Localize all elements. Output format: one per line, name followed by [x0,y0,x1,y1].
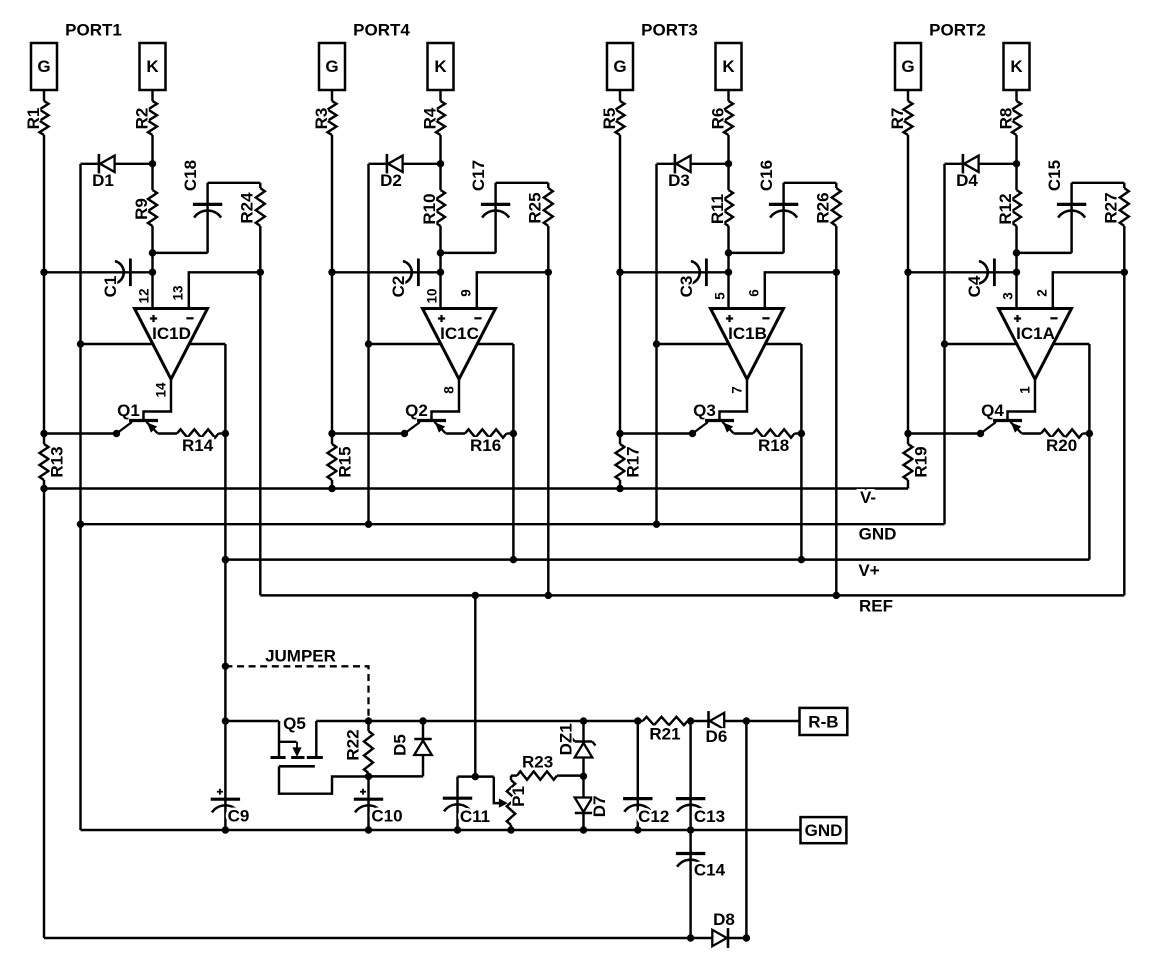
op-amp IC1A [999,309,1072,380]
resistor R13 [40,444,49,480]
resistor R3 [328,101,337,135]
wire op-amp output [144,379,172,419]
capacitor C9 [211,798,240,801]
wire feedback vertical [800,344,802,560]
resistor R26 [835,183,837,188]
wire [439,226,441,309]
terminal G (PORT4) [319,43,345,90]
wire [79,164,81,524]
svg-text:K: K [146,57,159,76]
wire left V- rail to bottom [43,489,45,939]
capacitor C13 [689,721,691,830]
svg-text:DZ1: DZ1 [557,723,576,755]
diode D1 [100,156,115,172]
wire [81,163,153,165]
svg-text:C3: C3 [677,276,696,298]
svg-text:G: G [37,57,50,76]
svg-text:R2: R2 [133,108,152,130]
terminal G (PORT2) [895,43,921,90]
svg-text:3: 3 [1001,292,1016,300]
wire inverting input [765,272,837,308]
svg-text:5: 5 [713,292,728,300]
wire [727,135,729,190]
wire feedback wrap [369,343,514,345]
wire [727,226,729,309]
svg-text:C17: C17 [469,160,488,191]
wire inverting input [189,272,260,308]
svg-text:10: 10 [425,288,440,303]
wire [1015,135,1017,190]
resistor R11 [724,190,733,226]
capacitor C14 [689,830,691,938]
svg-text:13: 13 [171,285,186,301]
wire [439,90,441,101]
wire [441,252,496,254]
wire [688,720,709,722]
svg-text:G: G [613,57,626,76]
jumper dashed link [225,666,368,719]
svg-text:2: 2 [1035,289,1050,297]
diode D8 [712,930,727,946]
terminal K (PORT4) [428,43,454,90]
wire collector [908,432,981,434]
resistor R1 [40,101,49,135]
wire [151,135,153,190]
terminal K (PORT1) [140,43,166,90]
bus V+ [225,558,1089,560]
resistor R24 [259,183,261,188]
wire [331,90,333,101]
svg-text:R1: R1 [24,108,43,130]
wire collector [44,432,117,434]
svg-text:PORT1: PORT1 [65,21,122,40]
svg-text:Q4: Q4 [981,401,1004,420]
resistor R15 [328,444,337,480]
svg-text:D1: D1 [92,171,114,190]
svg-text:R20: R20 [1046,436,1077,455]
wire [151,226,153,309]
svg-text:R14: R14 [182,436,214,455]
wire op-amp output [720,379,748,419]
svg-text:R19: R19 [912,446,931,477]
svg-text:G: G [901,57,914,76]
diode D2 [388,156,403,172]
svg-text:C9: C9 [228,807,250,826]
svg-text:P1: P1 [509,786,528,807]
svg-text:G: G [325,57,338,76]
svg-text:V+: V+ [858,561,879,580]
svg-text:R-B: R-B [808,712,838,731]
wire feedback wrap [657,343,802,345]
diode D7 [582,776,584,830]
svg-text:PORT4: PORT4 [353,21,410,40]
zener diode DZ1 [582,721,584,776]
wire [619,480,621,489]
svg-text:R7: R7 [888,108,907,130]
svg-text:Q3: Q3 [693,401,716,420]
resistor R27 [1123,183,1125,188]
capacitor C4 [908,271,1017,273]
potentiometer P1 [500,799,507,806]
wire [367,164,369,524]
svg-text:8: 8 [442,386,457,394]
wire inverting input [1053,272,1125,308]
capacitor C16 [782,183,784,253]
wire main positive rail [316,720,643,722]
resistor R6 [724,101,733,135]
svg-text:D2: D2 [380,171,402,190]
capacitor C11 [456,777,458,830]
wire feedback vertical [224,344,226,830]
resistor R18 [753,429,795,437]
terminal G (PORT3) [607,43,633,90]
resistor R10 [436,190,445,226]
wire [331,135,333,444]
wire [1015,90,1017,101]
resistor R9 [148,190,157,226]
svg-text:D7: D7 [590,796,609,818]
svg-text:C4: C4 [965,275,984,297]
svg-text:D8: D8 [713,910,735,929]
svg-text:K: K [1010,57,1023,76]
wire [619,135,621,444]
capacitor C1 [44,271,153,273]
diode D6 [710,713,725,729]
svg-text:C16: C16 [757,160,776,191]
wire [439,135,441,190]
bus REF [260,594,1124,596]
svg-text:R3: R3 [312,108,331,130]
wire [1017,252,1072,254]
svg-text:R11: R11 [708,194,727,224]
svg-text:R22: R22 [344,729,363,760]
svg-text:R10: R10 [420,193,439,224]
svg-text:R26: R26 [813,192,832,223]
node dots bottom [222,556,229,563]
resistor R25 [547,183,549,188]
svg-text:REF: REF [859,597,893,616]
wire [907,480,909,489]
wire collector [332,432,405,434]
svg-text:C15: C15 [1045,160,1064,191]
svg-text:D6: D6 [706,727,728,746]
op-amp IC1B [711,309,784,380]
resistor R23 [511,774,517,776]
wire wiper link [458,775,494,777]
svg-text:R5: R5 [600,108,619,130]
wire [1123,226,1125,595]
op-amp IC1C [423,309,496,380]
svg-text:IC1A: IC1A [1016,324,1055,343]
node dots [328,269,335,276]
svg-text:R12: R12 [996,193,1015,224]
diode D3 [676,156,691,172]
wire [331,480,333,489]
wire [1072,182,1125,184]
capacitor C18 [206,183,208,253]
node dots [904,269,911,276]
svg-text:Q2: Q2 [405,401,428,420]
bus V- [44,487,908,489]
wire ground rail bottom [81,829,801,831]
wire bottom rail [44,937,713,939]
wire [907,90,909,101]
capacitor C17 [494,183,496,253]
wire emitter [734,432,754,434]
svg-text:C13: C13 [694,807,725,826]
svg-text:PORT2: PORT2 [929,21,986,40]
svg-text:JUMPER: JUMPER [265,647,336,666]
svg-text:K: K [434,57,447,76]
capacitor C15 [1070,183,1072,253]
resistor R7 [904,101,913,135]
resistor R19 [904,444,913,480]
svg-text:V-: V- [860,488,876,507]
terminal K (PORT2) [1004,43,1030,90]
wire [727,90,729,101]
svg-text:R4: R4 [421,107,440,129]
resistor R20 [1041,429,1083,437]
svg-text:GND: GND [859,525,897,544]
svg-text:C14: C14 [694,861,726,880]
wire feedback wrap [81,343,226,345]
terminal G (PORT1) [31,43,57,90]
wire [43,480,45,489]
capacitor C12 [637,721,639,830]
bus GND [81,523,945,525]
op-amp IC1D [135,309,208,380]
svg-text:IC1C: IC1C [440,324,479,343]
wire [943,164,945,524]
wire [496,182,549,184]
svg-text:9: 9 [459,289,474,297]
wire [547,226,549,595]
svg-text:12: 12 [137,288,152,303]
wire feedback wrap [945,343,1090,345]
wire [43,90,45,101]
terminal R-B [800,708,848,735]
wire op-amp output [1008,379,1036,419]
wire [945,163,1017,165]
wire [369,163,441,165]
wire emitter [446,432,466,434]
wire emitter [1022,432,1042,434]
node dots [40,269,47,276]
resistor R14 [177,429,219,437]
svg-text:14: 14 [154,382,169,398]
wire emitter [158,432,178,434]
svg-text:C1: C1 [101,276,120,298]
wire op-amp output [432,379,460,419]
svg-text:7: 7 [730,386,745,394]
wire left ground rail [79,524,81,830]
wire R-B drop [745,721,747,938]
wire [151,90,153,101]
svg-text:R15: R15 [336,446,355,477]
svg-text:PORT3: PORT3 [641,21,698,40]
svg-text:IC1B: IC1B [728,324,767,343]
wire [1015,226,1017,309]
svg-text:C11: C11 [460,807,490,826]
wire [835,226,837,595]
svg-text:C2: C2 [389,276,408,298]
wire ref drop to C11 [474,595,476,776]
wire [724,720,799,722]
wire feedback vertical [1088,344,1090,560]
svg-text:Q1: Q1 [117,401,140,420]
svg-text:R27: R27 [1101,192,1120,223]
svg-text:R13: R13 [48,446,67,477]
terminal GND [801,817,847,843]
wire [153,252,208,254]
wire [259,226,261,595]
wire collector [620,432,693,434]
diode D4 [964,156,979,172]
wire [619,90,621,101]
resistor R4 [436,101,445,135]
node dots [616,269,623,276]
wire [907,135,909,444]
svg-text:D4: D4 [956,171,978,190]
svg-text:D5: D5 [391,734,410,756]
svg-text:R18: R18 [758,436,789,455]
svg-text:R25: R25 [525,192,544,223]
wire [728,937,746,939]
svg-text:R23: R23 [522,753,553,772]
svg-text:R16: R16 [470,436,501,455]
svg-text:1: 1 [1018,386,1033,394]
resistor R2 [148,101,157,135]
resistor R5 [616,101,625,135]
resistor R17 [616,444,625,480]
svg-text:C10: C10 [371,807,402,826]
resistor R16 [465,429,507,437]
wire [729,252,784,254]
svg-text:R6: R6 [709,108,728,130]
resistor R21 [643,717,688,725]
wire [657,163,729,165]
resistor R8 [1012,101,1021,135]
svg-text:R21: R21 [649,724,680,743]
svg-text:D3: D3 [668,171,690,190]
svg-text:GND: GND [805,821,843,840]
wire [655,164,657,524]
svg-text:IC1D: IC1D [152,324,191,343]
capacitor C10 [367,773,369,830]
wire [784,182,837,184]
svg-text:C18: C18 [181,160,200,191]
wire feedback vertical [512,344,514,560]
svg-text:R8: R8 [997,108,1016,130]
svg-text:Q5: Q5 [283,714,306,733]
svg-text:6: 6 [747,289,762,297]
svg-text:C12: C12 [638,807,669,826]
wire main positive rail (gate side) [225,720,279,722]
terminal K (PORT3) [716,43,742,90]
svg-text:R24: R24 [237,192,256,224]
diode D5 [422,721,424,776]
wire [208,182,261,184]
resistor R22 [367,721,369,731]
svg-text:K: K [722,57,735,76]
svg-text:R9: R9 [132,198,151,220]
capacitor C2 [332,271,441,273]
capacitor C3 [620,271,729,273]
wire [43,135,45,444]
resistor R12 [1012,190,1021,226]
wire [369,775,424,777]
svg-text:R17: R17 [624,446,643,477]
wire inverting input [477,272,549,308]
